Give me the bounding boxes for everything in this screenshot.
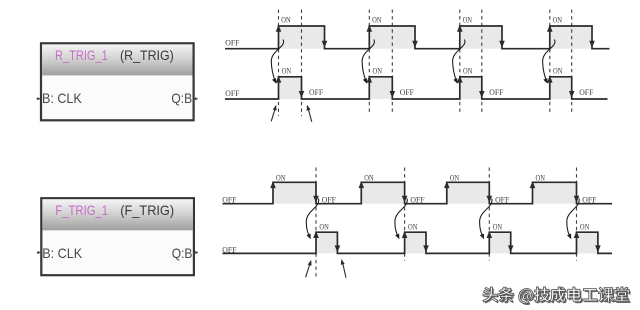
block type label (R_TRIG)	[120, 47, 174, 63]
R_TRIG output waveform pulse fills	[279, 78, 570, 99]
F_TRIG input waveform pulse fills	[274, 183, 576, 204]
svg-text:B: CLK: B: CLK	[42, 90, 82, 106]
svg-text:ON: ON	[373, 66, 382, 75]
input pin tick B	[37, 251, 41, 254]
svg-text:ON: ON	[463, 66, 472, 75]
F_TRIG input waveform B (square wave)	[223, 182, 613, 203]
output pin tick Q	[195, 251, 199, 254]
R_TRIG input waveform pulse fills	[279, 27, 591, 49]
F_TRIG falling-edge dashed marker lines	[316, 168, 577, 278]
R_TRIG output edge arrows	[276, 76, 575, 98]
input pin label B: CLK	[42, 90, 82, 106]
block instance name F_TRIG_1	[55, 202, 108, 218]
R_TRIG input waveform B (square wave)	[225, 26, 610, 49]
svg-text:OFF: OFF	[225, 89, 240, 98]
F_TRIG output waveform pulse fills	[317, 233, 597, 253]
output pin label Q:B	[171, 90, 192, 106]
svg-text:OFF: OFF	[322, 195, 337, 204]
block type label (F_TRIG)	[120, 202, 174, 218]
svg-text:ON: ON	[536, 174, 545, 183]
svg-text:ON: ON	[553, 15, 562, 24]
svg-text:ON: ON	[553, 66, 562, 75]
svg-text:ON: ON	[493, 223, 502, 232]
R_TRIG trigger curved arrows (rising edge to output pulse)	[271, 40, 555, 84]
svg-text:ON: ON	[319, 223, 328, 232]
R_TRIG waveform labels OFF/ON	[225, 15, 594, 98]
R_TRIG scan-cycle dashed marker lines	[279, 10, 572, 117]
watermark 头条@技成电工课堂	[483, 287, 631, 305]
output pin tick Q	[194, 97, 198, 100]
input pin tick B	[37, 97, 41, 100]
F_TRIG input edge arrows	[270, 181, 579, 203]
svg-text:ON: ON	[281, 15, 290, 24]
svg-text:OFF: OFF	[495, 195, 510, 204]
svg-text:OFF: OFF	[582, 195, 597, 204]
svg-text:OFF: OFF	[579, 88, 594, 97]
svg-text:ON: ON	[364, 174, 373, 183]
svg-text:OFF: OFF	[225, 39, 240, 48]
svg-text:OFF: OFF	[222, 245, 237, 254]
svg-text:OFF: OFF	[222, 195, 237, 204]
input pin label B: CLK	[42, 245, 82, 261]
svg-text:OFF: OFF	[309, 88, 324, 97]
svg-text:(F_TRIG): (F_TRIG)	[120, 202, 174, 218]
function block R_TRIG_1 body	[41, 43, 194, 120]
F_TRIG waveform labels OFF/ON	[222, 174, 597, 255]
svg-text:(R_TRIG): (R_TRIG)	[120, 47, 174, 63]
svg-text:OFF: OFF	[410, 195, 425, 204]
svg-text:ON: ON	[450, 174, 459, 183]
svg-text:R_TRIG_1: R_TRIG_1	[55, 47, 108, 63]
svg-text:B: CLK: B: CLK	[42, 245, 82, 261]
block instance name R_TRIG_1	[55, 47, 108, 63]
output pin label Q:B	[172, 245, 193, 261]
function block F_TRIG_1 body	[41, 198, 194, 275]
svg-text:Q:B: Q:B	[172, 245, 193, 261]
svg-text:ON: ON	[580, 223, 589, 232]
svg-text:ON: ON	[282, 66, 291, 75]
svg-text:ON: ON	[408, 223, 417, 232]
svg-text:ON: ON	[463, 15, 472, 24]
svg-text:Q:B: Q:B	[171, 90, 192, 106]
F_TRIG one-scan-width slant arrows	[306, 259, 346, 278]
F_TRIG output edge arrows	[313, 231, 601, 252]
R_TRIG input edge arrows	[276, 25, 595, 48]
F_TRIG output waveform Q (one-scan pulses)	[223, 232, 613, 253]
R_TRIG one-scan-width slant arrows	[271, 105, 312, 122]
svg-text:F_TRIG_1: F_TRIG_1	[55, 202, 108, 218]
svg-text:OFF: OFF	[489, 88, 504, 97]
F_TRIG trigger curved arrows (falling edge to output pulse)	[306, 199, 579, 240]
svg-text:ON: ON	[276, 174, 285, 183]
svg-text:ON: ON	[372, 15, 381, 24]
svg-text:OFF: OFF	[400, 88, 415, 97]
R_TRIG output waveform Q (one-scan pulses)	[225, 77, 608, 99]
